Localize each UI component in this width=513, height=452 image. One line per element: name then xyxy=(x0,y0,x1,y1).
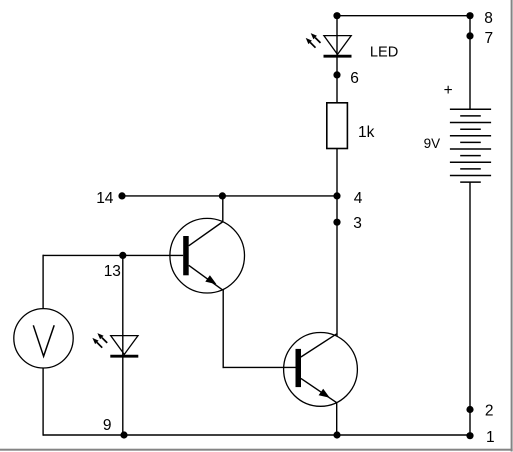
svg-text:2: 2 xyxy=(485,402,494,419)
svg-text:1: 1 xyxy=(486,429,495,446)
svg-text:+: + xyxy=(444,82,453,99)
svg-text:4: 4 xyxy=(354,190,363,207)
svg-text:6: 6 xyxy=(350,70,359,87)
svg-text:1k: 1k xyxy=(358,124,375,141)
svg-text:14: 14 xyxy=(96,190,114,207)
svg-text:LED: LED xyxy=(370,44,398,60)
svg-text:9V: 9V xyxy=(424,136,441,151)
svg-text:9: 9 xyxy=(103,417,112,434)
svg-text:7: 7 xyxy=(485,30,494,47)
svg-text:8: 8 xyxy=(484,10,493,27)
svg-text:3: 3 xyxy=(353,215,362,232)
svg-text:13: 13 xyxy=(104,263,121,280)
